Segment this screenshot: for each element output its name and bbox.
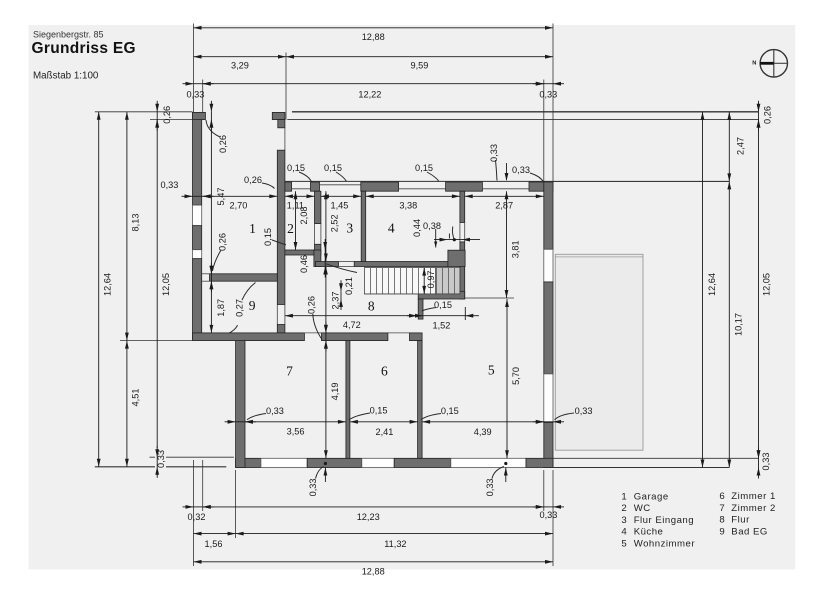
left ext line top inner xyxy=(150,119,193,121)
stair south wall xyxy=(418,291,465,299)
garage south door lines xyxy=(202,274,210,281)
svg-text:0,27: 0,27 xyxy=(235,299,245,317)
hall floor line over doors xyxy=(304,332,421,334)
svg-text:11,32: 11,32 xyxy=(384,539,406,549)
garage south wall xyxy=(210,274,278,281)
leader 0,26 hall south xyxy=(313,314,322,340)
dim 5,47 xyxy=(210,120,226,274)
house north wall piece kitchen-right xyxy=(446,182,483,191)
svg-text:0,26: 0,26 xyxy=(762,106,772,124)
dim 0,33 top right xyxy=(533,82,564,100)
dim 5,70 xyxy=(505,299,521,458)
dim 12,88 bottom xyxy=(194,560,554,576)
dim 0,26 hall south wall xyxy=(307,296,328,352)
svg-text:2,52: 2,52 xyxy=(330,214,340,232)
bottom right outer line xyxy=(553,467,729,469)
wc south wall xyxy=(285,250,314,255)
svg-text:2,47: 2,47 xyxy=(736,137,746,155)
svg-text:0,33: 0,33 xyxy=(489,144,499,162)
outer wall right mid segment xyxy=(544,282,553,374)
dim 12,05 left xyxy=(155,120,171,458)
svg-text:0,26: 0,26 xyxy=(162,106,172,124)
svg-text:0,15: 0,15 xyxy=(415,163,433,173)
flur-hall door lines xyxy=(339,262,355,267)
dim 2,87 xyxy=(465,194,544,210)
dim 10,17 xyxy=(727,181,743,467)
svg-text:12,23: 12,23 xyxy=(357,512,380,522)
wall wc-flur lower piece xyxy=(314,244,321,266)
carport south line xyxy=(553,180,729,182)
dim 12,64 right xyxy=(701,112,717,468)
ground line left outer xyxy=(95,466,227,468)
dim 0,33 bottom window left xyxy=(308,462,327,496)
svg-text:WC: WC xyxy=(634,503,651,514)
roof line lower xyxy=(287,119,758,121)
svg-text:0,15: 0,15 xyxy=(441,406,459,416)
window bottom zimmer2 xyxy=(261,458,307,467)
outer wall bottom piece se-corner xyxy=(526,458,553,467)
house north wall piece east corner xyxy=(529,182,553,191)
dim 3,29 xyxy=(194,55,287,71)
svg-text:3,38: 3,38 xyxy=(399,200,417,210)
svg-text:10,17: 10,17 xyxy=(734,313,744,336)
svg-text:Flur Eingang: Flur Eingang xyxy=(634,515,694,526)
dim 0,32 xyxy=(183,505,214,522)
dim 0,33 bottom window right xyxy=(485,462,508,496)
leader 0,26 garage south xyxy=(213,250,222,271)
svg-text:1,87: 1,87 xyxy=(216,299,226,317)
outer wall left lower segment xyxy=(193,259,202,341)
svg-text:Maßstab 1:100: Maßstab 1:100 xyxy=(33,71,99,82)
dim 11,32 xyxy=(236,532,553,549)
svg-text:1,52: 1,52 xyxy=(432,321,450,331)
svg-text:5: 5 xyxy=(488,362,495,377)
room number 3 xyxy=(346,221,353,236)
dim 0,33 top left xyxy=(183,82,214,100)
svg-text:12,05: 12,05 xyxy=(762,273,772,296)
label 0,15 wall 7-6 xyxy=(349,406,388,420)
svg-text:0,33: 0,33 xyxy=(485,478,495,496)
svg-text:2,70: 2,70 xyxy=(229,200,247,210)
svg-text:0,15: 0,15 xyxy=(370,406,388,416)
svg-text:0,97: 0,97 xyxy=(426,270,436,288)
label 0,15 over entrance xyxy=(324,163,346,182)
svg-text:0,26: 0,26 xyxy=(307,296,317,314)
svg-text:0,33: 0,33 xyxy=(186,90,204,100)
dim 1,45 xyxy=(321,194,361,210)
bad door lines xyxy=(277,305,285,325)
wc door lines xyxy=(315,224,321,245)
label 0,15 wall 6-5 xyxy=(421,406,459,420)
room number 7 xyxy=(286,363,293,378)
svg-text:0,26: 0,26 xyxy=(217,233,227,251)
svg-text:0,32: 0,32 xyxy=(188,512,206,522)
wall wc-flur upper piece xyxy=(315,191,321,223)
room number 1 xyxy=(249,221,256,236)
dim 4,51 xyxy=(125,341,141,467)
svg-text:12,64: 12,64 xyxy=(102,273,112,296)
svg-text:Zimmer 1: Zimmer 1 xyxy=(731,491,776,502)
dim 3,81 xyxy=(505,191,521,298)
flur south wall west piece xyxy=(316,262,339,267)
dim 0,26 garage top xyxy=(210,101,228,153)
svg-text:Wohnzimmer: Wohnzimmer xyxy=(634,538,696,549)
room number 9 xyxy=(249,298,256,313)
left ext line mid xyxy=(120,340,236,342)
svg-text:2: 2 xyxy=(287,221,294,236)
svg-text:0,33: 0,33 xyxy=(539,90,557,100)
svg-text:0,33: 0,33 xyxy=(539,510,557,520)
svg-text:3,29: 3,29 xyxy=(231,60,249,70)
ground line left inner xyxy=(150,456,234,458)
svg-text:0,33: 0,33 xyxy=(761,453,771,471)
dim 12,23 xyxy=(203,505,544,522)
dim 0,26 right xyxy=(757,101,773,131)
svg-text:Grundriss EG: Grundriss EG xyxy=(32,40,136,57)
svg-text:4,19: 4,19 xyxy=(330,382,340,400)
dim 0,26 garage south xyxy=(210,233,228,292)
svg-text:0,38: 0,38 xyxy=(423,221,441,231)
label 0,15 garage wall xyxy=(263,228,286,246)
svg-text:8,13: 8,13 xyxy=(131,214,141,232)
stair bottom edge line xyxy=(364,293,418,295)
svg-text:1,45: 1,45 xyxy=(330,200,348,210)
dining window sill lines xyxy=(482,188,529,190)
svg-text:0,33: 0,33 xyxy=(160,180,178,190)
outer wall bottom piece mid-right xyxy=(394,458,451,467)
title scale text xyxy=(33,71,99,82)
dim 0,33 bottom chain right xyxy=(533,505,564,520)
room number 2 xyxy=(287,221,294,236)
outer wall left mid segment xyxy=(193,226,202,250)
hall south wall east header xyxy=(410,333,423,341)
stairs xyxy=(364,268,460,294)
dim 0,33 left bottom xyxy=(155,446,166,478)
hall south wall west piece xyxy=(193,333,305,341)
hall south wall mid piece xyxy=(322,333,388,341)
svg-text:1,56: 1,56 xyxy=(205,539,223,549)
bad door stub xyxy=(277,325,285,333)
svg-text:Zimmer 2: Zimmer 2 xyxy=(731,503,776,514)
svg-text:1: 1 xyxy=(621,491,626,502)
svg-text:4: 4 xyxy=(388,221,395,236)
outer wall lower-left vertical xyxy=(236,333,245,468)
bad door swing arc xyxy=(212,325,237,337)
stair south wall stub xyxy=(418,299,423,319)
dim 0,33 left wall xyxy=(160,180,213,198)
room number 5 xyxy=(488,362,495,377)
dim 0,33 sw wall xyxy=(225,406,284,424)
outer wall left upper segment xyxy=(193,112,206,205)
title Grundriss EG xyxy=(32,40,136,57)
svg-text:4,72: 4,72 xyxy=(343,320,361,330)
north symbol xyxy=(752,49,787,77)
svg-text:Garage: Garage xyxy=(634,491,669,502)
kueche door leaf xyxy=(452,227,454,240)
dim 0,46 wc wall xyxy=(299,239,327,278)
dim 12,22 xyxy=(203,82,544,100)
svg-text:12,88: 12,88 xyxy=(362,566,385,576)
wall between zimmer2 and zimmer1 xyxy=(346,341,350,459)
kueche east wall upper piece xyxy=(460,191,465,222)
dim 3,38 xyxy=(366,194,460,210)
dim 1,56 xyxy=(194,532,236,549)
wall flur-kueche xyxy=(361,191,366,261)
svg-text:0,33: 0,33 xyxy=(512,165,530,175)
title address text xyxy=(33,30,104,40)
dim 0,33 se wall xyxy=(533,406,593,424)
left ext line top xyxy=(95,111,193,113)
svg-text:0,15: 0,15 xyxy=(324,163,342,173)
terrace xyxy=(555,254,643,450)
svg-text:0,15: 0,15 xyxy=(434,300,452,310)
svg-text:4,39: 4,39 xyxy=(474,427,492,437)
legend xyxy=(621,491,775,549)
svg-text:9: 9 xyxy=(719,526,724,537)
garage east door line xyxy=(284,128,286,150)
svg-text:0,33: 0,33 xyxy=(575,406,593,416)
dim 12,05 right xyxy=(757,120,772,459)
garage east wall main segment xyxy=(277,150,291,304)
dim 12,88 top xyxy=(194,26,554,42)
flur south wall east piece xyxy=(354,262,448,267)
house north wall piece kitchen-left xyxy=(361,182,399,191)
outer wall bottom piece sw-corner xyxy=(236,458,261,467)
label 0,26 over band xyxy=(244,175,274,189)
svg-text:4,51: 4,51 xyxy=(131,389,141,407)
svg-text:Küche: Küche xyxy=(634,527,664,538)
dim 2,41 xyxy=(350,420,418,437)
svg-text:1: 1 xyxy=(249,221,256,236)
svg-text:N: N xyxy=(752,61,756,67)
window right wall upper xyxy=(544,249,553,282)
dim 4,39 xyxy=(422,420,544,437)
wall between zimmer1 and wohnzimmer xyxy=(418,341,423,459)
room number 8 xyxy=(368,298,375,313)
dim 1,52 xyxy=(407,307,479,331)
outer wall right upper segment xyxy=(544,182,553,249)
kueche east wall lower piece xyxy=(448,242,465,299)
kitchen window sill lines xyxy=(399,188,446,190)
dim 2,08 xyxy=(294,191,309,250)
svg-text:12,05: 12,05 xyxy=(161,273,171,296)
window right wall lower xyxy=(544,374,553,423)
garage east wall top corner xyxy=(272,112,285,127)
kueche door lines xyxy=(460,223,465,242)
svg-text:0,26: 0,26 xyxy=(218,135,228,153)
svg-text:2,08: 2,08 xyxy=(299,207,309,225)
svg-text:8: 8 xyxy=(368,298,375,313)
dim 1,11 xyxy=(285,194,315,210)
label 0,15 stair stub xyxy=(422,300,452,311)
svg-text:3: 3 xyxy=(346,221,353,236)
roof line upper xyxy=(292,111,759,113)
dim 4,19 xyxy=(324,341,340,459)
dim 0,21 stair wall xyxy=(339,277,354,310)
svg-text:7: 7 xyxy=(286,363,293,378)
dim 1,87 bad xyxy=(210,281,226,333)
svg-text:0,33: 0,33 xyxy=(308,478,318,496)
extension line 3,81 base xyxy=(465,297,514,299)
svg-text:6: 6 xyxy=(719,491,724,502)
dim 8,13 xyxy=(125,112,141,341)
dim 0,26 left top xyxy=(155,101,172,131)
svg-text:Bad EG: Bad EG xyxy=(731,526,768,537)
svg-text:Flur: Flur xyxy=(731,515,750,526)
house north wall piece over wc xyxy=(311,182,320,191)
svg-text:5,70: 5,70 xyxy=(511,367,521,385)
dim 0,33 right bottom xyxy=(757,447,772,478)
window left wall garage xyxy=(193,205,202,226)
svg-text:9,59: 9,59 xyxy=(410,60,428,70)
svg-text:2,41: 2,41 xyxy=(375,427,393,437)
label 0,33 ne corner xyxy=(505,163,544,182)
window bottom zimmer1 xyxy=(362,458,394,467)
svg-text:6: 6 xyxy=(381,363,388,378)
svg-text:5: 5 xyxy=(621,538,626,549)
room number 6 xyxy=(381,363,388,378)
label 0,15 over wc xyxy=(287,163,311,182)
leader 0,26 garage top xyxy=(206,120,220,137)
dim 12,64 left xyxy=(97,112,113,467)
svg-text:12,22: 12,22 xyxy=(358,90,381,100)
outer wall right lower segment xyxy=(544,423,553,468)
svg-text:12,88: 12,88 xyxy=(362,32,385,42)
band top outline line xyxy=(285,180,729,182)
svg-text:0,44: 0,44 xyxy=(412,219,422,237)
svg-text:3: 3 xyxy=(621,515,626,526)
svg-text:8: 8 xyxy=(719,515,724,526)
entrance sill lines xyxy=(292,185,361,189)
dim 2,37 hall xyxy=(324,267,341,333)
svg-text:2: 2 xyxy=(621,503,626,514)
svg-text:3,56: 3,56 xyxy=(287,426,305,436)
label 0,15 over kitchen window xyxy=(415,163,439,182)
room number 4 xyxy=(388,221,395,236)
svg-text:0,21: 0,21 xyxy=(344,277,354,295)
svg-text:3,81: 3,81 xyxy=(511,240,521,258)
dim 9,59 xyxy=(286,55,553,71)
svg-text:Siegenbergstr. 85: Siegenbergstr. 85 xyxy=(33,30,104,40)
svg-text:0,33: 0,33 xyxy=(156,450,166,468)
extension lines bottom chains xyxy=(194,460,554,566)
window left wall bad xyxy=(193,250,202,259)
dim 3,56 xyxy=(245,420,346,436)
svg-text:0,26: 0,26 xyxy=(244,175,262,185)
dim 2,52 xyxy=(324,191,340,261)
svg-text:0,15: 0,15 xyxy=(263,228,273,246)
outer wall bottom piece mid-left xyxy=(307,458,362,467)
dim 0,97 stairs xyxy=(419,268,436,294)
label 0,27 bad wall xyxy=(235,283,256,317)
dim 4,72 xyxy=(285,314,417,330)
svg-text:2,37: 2,37 xyxy=(331,292,341,310)
svg-text:0,33: 0,33 xyxy=(266,406,284,416)
extension lines top chain xyxy=(194,24,554,183)
window bottom wohnzimmer xyxy=(451,458,526,467)
svg-text:12,64: 12,64 xyxy=(707,273,717,296)
label 0,33 over dining window xyxy=(489,144,499,180)
svg-text:0,46: 0,46 xyxy=(299,255,309,273)
bottom right inner line xyxy=(553,457,759,459)
svg-text:7: 7 xyxy=(719,503,724,514)
dim 2,70 xyxy=(203,194,278,210)
flur-hall door swing arc xyxy=(326,264,357,273)
dim 2,47 xyxy=(727,112,745,182)
svg-text:4: 4 xyxy=(621,527,627,538)
svg-text:2,87: 2,87 xyxy=(495,200,513,210)
svg-text:0,15: 0,15 xyxy=(287,163,305,173)
svg-text:9: 9 xyxy=(249,298,256,313)
dim 0,44 0,38 kitchen step xyxy=(412,219,480,247)
